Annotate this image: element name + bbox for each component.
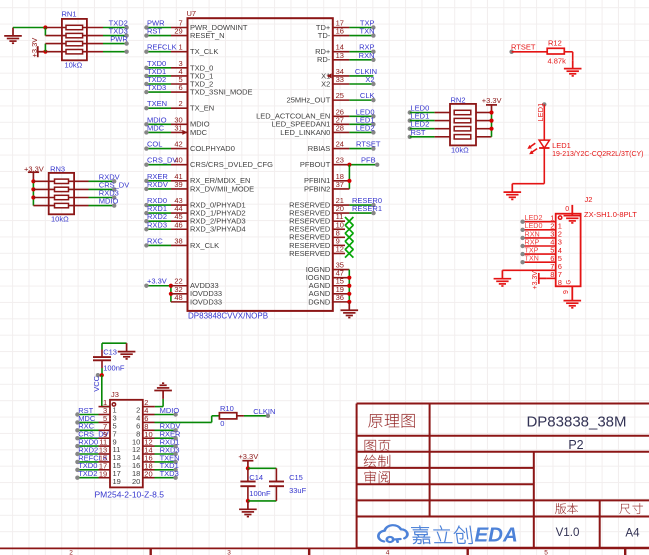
svg-text:R12: R12 (548, 39, 562, 48)
value 10kΩ (RN2) (451, 146, 469, 155)
svg-text:25: 25 (336, 91, 344, 100)
wire R12 to ground (564, 52, 572, 60)
label C15 (289, 473, 303, 482)
svg-text:CRS_DV: CRS_DV (147, 156, 177, 165)
wire R10 to CLKIN (237, 415, 268, 417)
capacitor C15 (269, 468, 284, 501)
svg-text:4: 4 (386, 549, 390, 555)
svg-text:RX_CLK: RX_CLK (190, 241, 219, 250)
power flag +3.3V (C14) (238, 452, 258, 468)
junction (RN1 pin4) (43, 50, 47, 54)
J3 pin 15 / net REFCLK (75, 453, 121, 470)
svg-text:10kΩ: 10kΩ (65, 61, 83, 70)
svg-text:RXC: RXC (147, 236, 163, 245)
U7 pin 6 TXD_3SNI_MODE / net TXD3 (144, 83, 252, 96)
svg-text:VCC: VCC (92, 375, 101, 391)
svg-text:0: 0 (220, 419, 224, 428)
svg-text:MDIO: MDIO (160, 406, 180, 415)
wire / net label TXD3 (RN1 row 2) (103, 27, 129, 38)
wire / net label CRS_DV (RN3 row 2) (89, 180, 130, 191)
wire LED1 cathode to ground (512, 148, 544, 184)
svg-text:46: 46 (174, 220, 182, 229)
junction (RN2 bus y=112.5) (489, 110, 493, 114)
J2 pin 5 / net TXP (520, 246, 562, 263)
svg-text:MDC: MDC (190, 128, 208, 137)
J3 pin1 indicator (112, 403, 115, 406)
J2 pin 4 / net RXP (520, 237, 562, 254)
J3 pin 20 / net TXD3 (132, 469, 179, 486)
net label LED0 / wire (RN2 row 1) (408, 104, 450, 115)
svg-text:RTSET: RTSET (511, 43, 536, 52)
svg-text:TXD_3SNI_MODE: TXD_3SNI_MODE (190, 87, 253, 96)
wire RN1 pins 1-2 (44, 28, 46, 36)
J3 pin 17 / net TXD0 (75, 461, 121, 478)
J3 pin 13 / net RXD2 (75, 445, 121, 462)
svg-text:RX_DV/MII_MODE: RX_DV/MII_MODE (190, 184, 254, 193)
value 19-213/Y2C-CQ2R2L/3T(CY) (LED1) (552, 151, 643, 158)
title value P2 (568, 438, 583, 452)
svg-text:23: 23 (336, 156, 344, 165)
wire / net label RXD3 (RN3 row 3) (89, 189, 119, 200)
power flag +3.3V (RN3) (24, 164, 44, 181)
junction (PFBOUT) (347, 163, 351, 167)
svg-text:37: 37 (336, 180, 344, 189)
svg-text:+3.3V: +3.3V (532, 271, 539, 290)
ground symbol GND (U7 DGND) (341, 302, 359, 318)
svg-text:RD-: RD- (317, 55, 331, 64)
label C14 (249, 473, 263, 482)
net label RST / wire (RN2 row 4) (408, 128, 450, 139)
U7 pin 32 IOVDD33 (171, 285, 222, 298)
svg-text:24: 24 (336, 140, 344, 149)
wire C13 bottom (101, 368, 103, 375)
J3 pin 6 / wire to R10 (136, 414, 219, 431)
svg-text:TXD3: TXD3 (147, 83, 166, 92)
resistor network RN2 (450, 104, 492, 145)
svg-text:RST: RST (411, 128, 426, 137)
U7 pin 3 TXD_0 / net TXD0 (144, 59, 213, 72)
J3 pin 19 / net TXD2 (75, 469, 121, 486)
wire +3.3V to C15 (248, 467, 277, 469)
connector J2 body (556, 214, 581, 287)
value 100nF (C14) (249, 489, 271, 498)
wire C13 top (102, 343, 127, 349)
svg-text:REFCLK: REFCLK (147, 43, 177, 52)
junction (RN2 bus y=120.6) (489, 119, 493, 123)
U7 pin 23 PFBOUT / net PFB (300, 156, 380, 169)
svg-text:J2: J2 (585, 195, 593, 204)
ground symbol GND (R12) (564, 60, 582, 76)
svg-text:2: 2 (69, 549, 73, 555)
U7 pin 21 RESERVED / net RESER0 (289, 196, 382, 209)
junction (C14 top) (246, 466, 250, 470)
svg-text:38: 38 (174, 236, 182, 245)
svg-text:CLK: CLK (360, 91, 375, 100)
wire / net label MDIO (RN3 row 4) (89, 197, 119, 208)
wire RTSET to R12 (512, 51, 548, 53)
ground symbol GND (C13) (118, 343, 136, 359)
ground symbol GND (J2 pin7) (494, 270, 512, 286)
svg-text:+3.3V: +3.3V (30, 38, 39, 58)
svg-text:TXD3: TXD3 (160, 469, 179, 478)
svg-text:TX_EN: TX_EN (190, 104, 214, 113)
svg-text:RN3: RN3 (50, 164, 65, 173)
label RN3 (50, 164, 65, 173)
LED LED1 (528, 140, 550, 154)
J2 pin 2 / net LED0 (520, 221, 562, 238)
svg-text:4.87k: 4.87k (548, 57, 567, 66)
net label VCC (vertical) (92, 373, 101, 392)
wire C14 bottom to C15 (248, 500, 277, 502)
svg-text:TXN: TXN (525, 254, 539, 263)
sheet border bottom (0, 547, 649, 549)
junction (U7 pin32) (169, 292, 173, 296)
U7 pin 29 RESET_N / net RST (144, 27, 224, 40)
svg-text:C15: C15 (289, 473, 303, 482)
power flag +3.3V (RN2) (482, 96, 502, 113)
svg-text:LED1: LED1 (552, 141, 571, 150)
svg-text:10kΩ: 10kΩ (451, 146, 469, 155)
svg-text:100nF: 100nF (249, 489, 271, 498)
svg-text:RESET_N: RESET_N (190, 31, 225, 40)
svg-text:MDC: MDC (147, 123, 165, 132)
U7 pin 5 TXD_2 / net TXD2 (144, 75, 213, 88)
sheet border tick x=625.2 (624, 548, 626, 555)
J2 pin 9 shield stem (563, 280, 572, 301)
U7 pin 30 MDIO / net MDIO (144, 115, 210, 128)
J3 pin 16 / net TXEN (132, 453, 180, 470)
svg-text:U7: U7 (187, 9, 197, 18)
svg-text:12: 12 (336, 244, 344, 253)
title value V1.0 (556, 526, 580, 539)
wire LED1 anode (543, 104, 545, 139)
connector J3 body (110, 400, 143, 488)
svg-text:19: 19 (113, 477, 121, 486)
U7 pin 20 RESERVED / net RESER1 (289, 204, 382, 217)
U7 pin 36 DGND (308, 293, 349, 306)
sheet border tick x=150.7 (149, 548, 151, 555)
svg-text:39: 39 (174, 180, 182, 189)
wire / net label TXD2 (RN1 row 1) (103, 19, 129, 30)
svg-text:42: 42 (174, 140, 182, 149)
title block frame (357, 404, 649, 549)
J3 pin 3 / net RST (75, 406, 116, 423)
title value A4 (625, 526, 640, 539)
junction (gnd bus row 33) (347, 292, 351, 296)
svg-text:20: 20 (132, 477, 140, 486)
value 10kΩ (RN3) (51, 214, 69, 223)
svg-text:MDIO: MDIO (99, 197, 119, 206)
junction (PFBIN1) (347, 179, 351, 183)
svg-text:G: G (566, 280, 572, 285)
net label LED1 / wire (RN2 row 2) (408, 112, 450, 123)
IC U7 DP83848 body (188, 18, 333, 311)
svg-text:R10: R10 (220, 404, 234, 413)
junction (C14 bottom) (246, 499, 250, 503)
svg-text:LED_LINKAN0: LED_LINKAN0 (280, 128, 330, 137)
svg-text:IOVDD33: IOVDD33 (190, 297, 222, 306)
title 绘制 (364, 455, 390, 468)
J2 pin 8 / power +3.3V (532, 270, 562, 290)
label J2 (585, 195, 593, 204)
junction (RN3 bus y=181.3) (31, 179, 35, 183)
value ZX-SH1.0-8PLT (J2) (584, 210, 637, 219)
svg-text:X2: X2 (365, 75, 374, 84)
value 0 (R10) (220, 419, 224, 428)
svg-text:+3.3V: +3.3V (24, 164, 44, 173)
label C13 (103, 348, 117, 357)
svg-text:C13: C13 (103, 348, 117, 357)
svg-text:LED2: LED2 (356, 123, 375, 132)
J3 pin 7 / net RXC (75, 422, 116, 439)
U7 pin 31 MDC / net MDC (144, 123, 207, 136)
U7 pin 1 TX_CLK / net REFCLK (144, 43, 218, 56)
svg-text:PFB: PFB (361, 156, 376, 165)
junction (RN3 bus y=197.5) (31, 195, 35, 199)
power flag +3.3V (RN1) (30, 38, 45, 58)
svg-text:16: 16 (336, 27, 344, 36)
net label RTSET (at R12) (509, 43, 535, 54)
U7 pin 26 LED_ACTCOLAN_EN / net LED0 (256, 107, 376, 120)
svg-text:PFBIN2: PFBIN2 (304, 184, 330, 193)
title 审阅 (365, 471, 390, 484)
ground symbol GND (LED1) (504, 184, 522, 200)
U7 pin 34 X1 / net CLKIN (321, 67, 377, 80)
junction (gnd bus row 34) (347, 300, 351, 304)
svg-text:TXEN: TXEN (147, 99, 167, 108)
junction (RN2 bus y=128.7) (489, 127, 493, 131)
svg-text:TD-: TD- (318, 31, 331, 40)
resistor R12 (547, 48, 564, 54)
ground symbol GND inverted (J3 pin2) (154, 383, 172, 399)
svg-text:DGND: DGND (308, 297, 331, 306)
U7 pin 2 TX_EN / net TXEN (144, 99, 214, 112)
U7 pin 10 RESERVED (no-connect) (289, 220, 353, 233)
U7 pin 18 PFBIN1 (304, 172, 349, 185)
svg-text:40: 40 (174, 156, 182, 165)
svg-text:9: 9 (563, 290, 570, 294)
capacitor C14 (240, 468, 255, 501)
wire VCC to J3 pin1 (102, 375, 110, 406)
sheet border tick x=309.2 (308, 548, 310, 555)
title 尺寸 (620, 503, 643, 514)
svg-text:3: 3 (227, 549, 231, 555)
net label LED1 (vertical) (536, 102, 547, 121)
svg-text:33: 33 (336, 75, 344, 84)
J3 pin 11 / net RXD0 (75, 438, 120, 455)
J3 pin 18 / net TXD1 (132, 461, 179, 478)
J3 pin 2 / wire to ground (136, 398, 163, 415)
U7 pin 39 RX_DV/MII_MODE / net RXDV (144, 180, 254, 193)
U7 pin 41 RX_ER/MDIX_EN / net RXER (144, 172, 250, 185)
svg-text:+3.3V: +3.3V (147, 277, 167, 286)
svg-text:RESERVED: RESERVED (289, 249, 331, 258)
wire GND to RN1 (13, 27, 45, 29)
svg-text:ZX-SH1.0-8PLT: ZX-SH1.0-8PLT (584, 210, 637, 219)
svg-text:19: 19 (99, 469, 107, 478)
U7 pin 35 IOGND (306, 261, 350, 274)
svg-text:PM254-2-10-Z-8.5: PM254-2-10-Z-8.5 (95, 490, 165, 500)
svg-text:19-213/Y2C-CQ2R2L/3T(CY): 19-213/Y2C-CQ2R2L/3T(CY) (552, 151, 643, 158)
label U7 (187, 9, 197, 18)
svg-text:29: 29 (174, 27, 182, 36)
svg-text:10kΩ: 10kΩ (51, 214, 69, 223)
wire / net label n/c (RN1 row 4) (103, 50, 129, 54)
value 100nF (C13) (103, 364, 125, 373)
svg-text:8: 8 (558, 278, 562, 287)
U7 pin 7 PWR_DOWNINT / net PWR (144, 19, 248, 32)
label LED1 (552, 141, 571, 150)
value DP83848CVVX/NOPB (U7) (188, 312, 268, 321)
svg-text:5: 5 (544, 549, 548, 555)
value 4.87k (R12) (548, 57, 567, 66)
label RN2 (451, 95, 466, 104)
svg-text:TX_CLK: TX_CLK (190, 47, 218, 56)
U7 pin 11 RESERVED (no-connect) (289, 212, 353, 225)
U7 pin 33 X2 / net X2 (321, 75, 375, 88)
wire U7 ground bus (348, 270, 350, 302)
label RN1 (62, 10, 77, 19)
sheet zone number 3 (227, 549, 231, 555)
logo 嘉立创EDA (378, 524, 517, 547)
J3 pin 4 / net MDIO (136, 406, 179, 423)
svg-text:RN2: RN2 (451, 95, 466, 104)
svg-text:48: 48 (174, 293, 182, 302)
U7 pin 22 AVDD33 (171, 277, 219, 290)
U7 pin 24 RBIAS / net RTSET (308, 140, 381, 153)
resistor R10 (219, 413, 236, 419)
svg-text:6: 6 (179, 83, 183, 92)
sheet zone number 4 (386, 549, 390, 555)
J2 pin 1 / net LED2 (520, 213, 562, 230)
svg-text:8: 8 (550, 270, 554, 279)
resistor network RN1 (45, 19, 103, 60)
wire RN3 left bus (32, 181, 34, 205)
U7 pin 42 COLPHYAD0 / net COL (144, 140, 235, 153)
title 图页 (365, 440, 391, 452)
svg-text:TXN: TXN (360, 27, 375, 36)
title 原理图 (368, 414, 414, 428)
U7 power net +3.3V wire (144, 277, 171, 302)
sheet zone number 5 (544, 549, 548, 555)
svg-text:33uF: 33uF (289, 486, 307, 495)
U7 pin 43 RXD_0/PHYAD1 / net RXD0 (144, 196, 246, 209)
label R10 (220, 404, 234, 413)
svg-text:X2: X2 (321, 79, 330, 88)
U7 pin 28 LED_LINKAN0 / net LED2 (280, 123, 375, 136)
U7 pin 14 RD+ / net RXP (315, 43, 376, 56)
ground symbol GND (C14) (239, 501, 257, 517)
junction (VCC node) (100, 373, 104, 377)
svg-text:DP83848CVVX/NOPB: DP83848CVVX/NOPB (188, 312, 268, 321)
junction (U7 pin22) (169, 284, 173, 288)
svg-text:PFBOUT: PFBOUT (300, 160, 331, 169)
U7 pin 17 TD+ / net TXP (316, 19, 376, 32)
svg-text:25MHz_OUT: 25MHz_OUT (287, 96, 331, 105)
U7 pin 44 RXD_1/PHYAD2 / net RXD1 (144, 204, 246, 217)
U7 pin 40 CRS/CRS_DVLED_CFG / net CRS_DV (144, 156, 273, 169)
svg-text:+3.3V: +3.3V (482, 96, 502, 105)
net label LED2 / wire (RN2 row 3) (408, 120, 450, 131)
junction (gnd bus row 31) (347, 276, 351, 280)
svg-text:RXDV: RXDV (147, 180, 168, 189)
svg-text:0: 0 (565, 206, 569, 213)
svg-text:CLKIN: CLKIN (253, 407, 275, 416)
U7 pin 15 AGND (309, 277, 350, 290)
U7 pin 12 RESERVED (no-connect) (289, 244, 353, 257)
title value DP83838_38M (526, 414, 626, 431)
svg-text:2: 2 (179, 99, 183, 108)
value PM254-2-10-Z-8.5 (J3) (95, 490, 165, 500)
junction (RN1 pin1) (43, 25, 47, 29)
svg-text:RN1: RN1 (62, 10, 77, 19)
J2 pin 0 shield stem (565, 205, 572, 216)
U7 pin 37 PFBIN2 (304, 180, 349, 193)
label J3 (111, 390, 119, 399)
svg-text:RXN: RXN (359, 51, 375, 60)
wire RN1 pins 3-4 (44, 44, 46, 52)
ground symbol GND (J2 top) (564, 216, 582, 223)
svg-text:RST: RST (147, 27, 162, 36)
svg-text:20: 20 (144, 469, 152, 478)
svg-text:J3: J3 (111, 390, 119, 399)
sheet border tick x=467.7 (467, 548, 469, 555)
svg-text:C14: C14 (249, 473, 263, 482)
svg-text:COL: COL (147, 140, 162, 149)
net label CLKIN (at R10) (253, 407, 275, 418)
value 10kΩ (RN1) (65, 61, 83, 70)
svg-text:P2: P2 (568, 438, 583, 452)
J2 pin 6 / net TXN (520, 254, 562, 271)
U7 pin 27 LED_SPEEDAN1 / net LED1 (272, 115, 376, 128)
U7 pin 25 25MHz_OUT / net CLK (287, 91, 376, 104)
J2 pin 7 / wire to ground (502, 262, 562, 279)
U7 pin 47 IOGND (306, 269, 350, 282)
svg-text:RTSET: RTSET (356, 140, 381, 149)
J3 pin 14 / net RXD3 (132, 445, 180, 462)
ground symbol GND (J2 bottom) (564, 301, 582, 308)
sheet zone number 2 (69, 549, 73, 555)
value 33uF (C15) (289, 486, 307, 495)
svg-text:+3.3V: +3.3V (238, 452, 258, 461)
wire / net label PWR (RN1 row 3) (103, 35, 129, 46)
svg-text:36: 36 (336, 293, 344, 302)
svg-text:TXD2: TXD2 (78, 469, 97, 478)
J3 pin 12 / net RXD1 (132, 438, 180, 455)
U7 pin 8 RESERVED (no-connect) (289, 228, 353, 241)
svg-text:28: 28 (336, 123, 344, 132)
U7 pin 46 RXD_3/PHYAD4 / net RXD3 (144, 220, 246, 233)
U7 pin 38 RX_CLK / net RXC (144, 236, 219, 249)
J3 pin 1 (99, 398, 117, 415)
svg-text:A4: A4 (625, 526, 640, 539)
U7 pin 16 TD- / net TXN (318, 27, 376, 40)
svg-text:RXD_3/PHYAD4: RXD_3/PHYAD4 (190, 225, 246, 234)
U7 pin 13 RD- / net RXN (317, 51, 376, 64)
ground symbol GND (RN1) (4, 28, 22, 44)
svg-text:100nF: 100nF (103, 364, 125, 373)
junction (gnd bus row 32) (347, 284, 351, 288)
J3 pin 5 / net MDC (75, 414, 116, 431)
svg-text:CRS/CRS_DVLED_CFG: CRS/CRS_DVLED_CFG (190, 160, 273, 169)
svg-text:RESER1: RESER1 (352, 204, 382, 213)
J2 pin 3 / net RXN (520, 229, 562, 246)
U7 pin 45 RXD_2/PHYAD3 / net RXD2 (144, 212, 246, 225)
svg-text:LED1: LED1 (536, 103, 545, 122)
junction (RN3 bus y=189.4) (31, 187, 35, 191)
U7 pin 4 TXD_1 / net TXD1 (144, 67, 213, 80)
svg-text:31: 31 (174, 123, 182, 132)
